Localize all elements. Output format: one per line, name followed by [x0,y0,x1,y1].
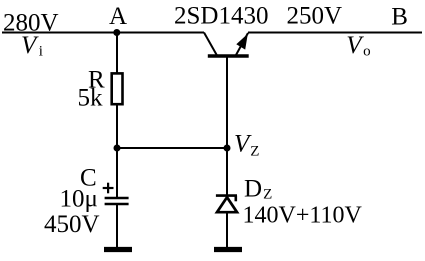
svg-text:250V: 250V [287,3,343,30]
svg-text:A: A [109,3,127,30]
svg-text:Vo: Vo [346,32,370,60]
svg-text:140V+110V: 140V+110V [243,202,363,228]
svg-text:2SD1430: 2SD1430 [174,3,268,30]
svg-text:B: B [391,4,408,31]
svg-text:DZ: DZ [244,176,272,203]
svg-text:450V: 450V [44,211,100,238]
svg-text:VZ: VZ [234,130,259,159]
svg-text:5k: 5k [78,85,104,112]
svg-text:10μ: 10μ [60,185,98,212]
